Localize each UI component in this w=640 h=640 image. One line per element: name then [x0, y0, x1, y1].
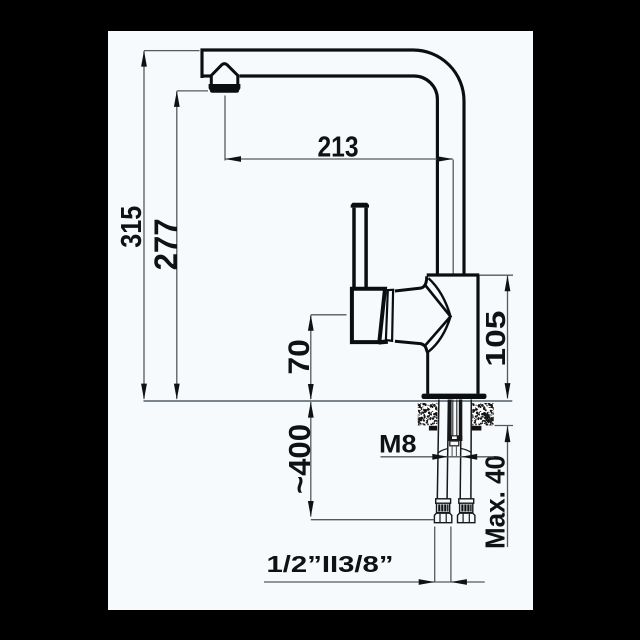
dimension 277: vertical line [176, 91, 178, 399]
valve cone lower edge with fillet to body left edge [395, 341, 428, 352]
handle ring band [386, 290, 393, 341]
white drawing sheet [108, 31, 533, 610]
hose fitting left: collar [436, 499, 451, 503]
hose fitting left: nut [434, 513, 451, 523]
dimension Max.40: up arrow [505, 426, 511, 442]
svg-text:315: 315 [116, 206, 148, 248]
nut white window [452, 436, 457, 439]
svg-text:M8: M8 [379, 430, 417, 458]
spout bottom short segment left of aerator [201, 74, 211, 77]
rod tail lines [452, 446, 456, 456]
hose bend arc left [438, 449, 448, 453]
aerator pentagon [211, 64, 238, 84]
dimension 70: vertical line [310, 315, 312, 399]
dimension 277: bottom arrow [174, 384, 180, 400]
dimension 213: extension line below aerator [224, 96, 226, 161]
dimension 105: vertical line [507, 276, 509, 399]
dimension 277: extension line at aerator [177, 90, 208, 92]
dimension M8: horizontal line [381, 456, 495, 458]
rod end box [450, 441, 459, 446]
dimension 1/2-3/8: right arrow (pointing left) [451, 579, 467, 585]
svg-text:105: 105 [480, 311, 511, 367]
M8 threaded rod lines [453, 400, 457, 437]
supply hose left (two lines) [437, 400, 448, 499]
dimension 315: vertical line [143, 51, 145, 399]
dimension 213: horizontal line [225, 158, 453, 160]
spout outer tube line (top, with elbow into vertical pipe outer) [202, 50, 464, 274]
countertop reference line [144, 400, 513, 402]
dimension ~400: top arrow (up, below counter line) [308, 402, 314, 418]
supply hose right (two lines) [460, 400, 471, 499]
dimension 105: bottom arrow [505, 383, 511, 399]
pipe centerline [452, 160, 454, 275]
dimension 277: top arrow [174, 91, 180, 107]
dimension Max.40: vertical line with tail [507, 426, 509, 547]
hose fitting right: collar [459, 499, 474, 503]
handle stick sides [354, 208, 366, 287]
body right edge [476, 275, 479, 394]
hose fitting right: nut [458, 513, 475, 523]
valve X pattern straight lines [424, 284, 450, 346]
handle grip body [352, 289, 385, 342]
valve X pattern lower curve [429, 317, 451, 352]
shank column right (dark) [459, 400, 463, 442]
handle grip bottom-right junction to ring [379, 339, 388, 344]
dimension Max.40: extension line at washer bottom [495, 425, 514, 427]
dimension ~400: bottom horizontal line to hose end [311, 519, 435, 521]
washer under counter left [429, 426, 437, 431]
dimension 70: top arrow [308, 315, 314, 331]
dimension 315: top arrow [141, 51, 147, 67]
shank column left (dark) [448, 400, 452, 442]
dimension 213: left arrow [225, 156, 241, 162]
dimension 315: bottom arrow [141, 384, 147, 400]
body top edge [427, 273, 480, 276]
dimension M8: right arrow (pointing left) [461, 454, 477, 460]
dimension 1/2-3/8: extension lines below fitting [434, 527, 436, 583]
aerator black tip [209, 84, 241, 93]
handle stick cap [351, 203, 369, 208]
spout inner tube line (bottom, with elbow into vertical pipe inner) [240, 76, 438, 274]
dimension 213: right arrow [437, 156, 453, 162]
dimension 70: bottom arrow [308, 384, 314, 400]
mounting nut bottom bar (black) [448, 435, 462, 441]
dimension 105: top arrow [505, 275, 511, 291]
dimension 315: extension line at spout top [144, 50, 200, 52]
dimension M8: left arrow (pointing right) [432, 454, 448, 460]
dimension 70: extension line to handle [311, 314, 347, 316]
dimension 1/2-3/8: horizontal line [264, 581, 485, 583]
dimension 105: extension line at body top [480, 274, 514, 276]
svg-text:213: 213 [318, 131, 359, 163]
dimension ~400: vertical line [310, 402, 312, 517]
hose bend arc right [461, 449, 472, 453]
countertop granite block left [418, 403, 438, 425]
svg-text:~400: ~400 [282, 424, 317, 494]
hose fitting right: crimp ribs [460, 503, 473, 512]
svg-text:277: 277 [148, 218, 184, 270]
dimension ~400: bottom arrow [308, 501, 314, 517]
valve X pattern upper curve [429, 278, 451, 316]
body left edge (below cone) [426, 351, 429, 394]
svg-text:1/2”II3/8”: 1/2”II3/8” [267, 551, 394, 577]
washer under counter right [471, 426, 481, 431]
base flange (black) [422, 394, 487, 399]
svg-text:70: 70 [283, 339, 316, 375]
hose fitting left: crimp ribs [437, 503, 450, 512]
dimension 1/2-3/8: left arrow (pointing right) [419, 579, 435, 585]
svg-text:Max. 40: Max. 40 [480, 455, 511, 549]
valve cone upper edge with fillet to body corner [395, 276, 427, 291]
countertop granite block right [472, 403, 493, 425]
